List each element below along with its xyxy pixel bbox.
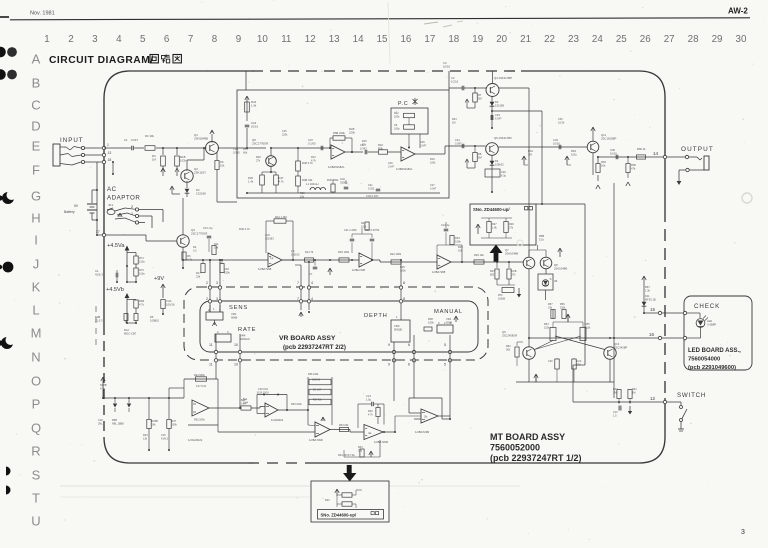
svg-text:SNo. ZD44600-up/: SNo. ZD44600-up/ bbox=[473, 207, 510, 212]
svg-text:1.3k: 1.3k bbox=[645, 288, 651, 292]
svg-text:E: E bbox=[32, 139, 41, 154]
svg-text:(pcb 22937247RT 1/2): (pcb 22937247RT 1/2) bbox=[490, 453, 582, 463]
svg-text:R40 2.7k: R40 2.7k bbox=[239, 227, 250, 231]
svg-text:100k: 100k bbox=[428, 320, 434, 324]
svg-text:11: 11 bbox=[209, 363, 213, 367]
svg-text:6: 6 bbox=[408, 343, 410, 347]
svg-text:10/16: 10/16 bbox=[558, 121, 565, 124]
svg-text:C1: C1 bbox=[124, 138, 128, 142]
svg-text:SENS: SENS bbox=[229, 305, 248, 311]
svg-text:R26 10k: R26 10k bbox=[474, 253, 484, 257]
svg-text:LED: LED bbox=[707, 319, 712, 323]
svg-text:1S2188: 1S2188 bbox=[196, 191, 206, 195]
svg-text:5V: 5V bbox=[74, 204, 79, 208]
svg-text:17: 17 bbox=[96, 230, 100, 234]
svg-text:U-0B8P: U-0B8P bbox=[707, 322, 716, 326]
svg-text:R33 23k: R33 23k bbox=[339, 424, 349, 427]
svg-text:C2: C2 bbox=[451, 76, 455, 80]
svg-text:1.5: 1.5 bbox=[613, 414, 617, 417]
svg-text:1M: 1M bbox=[613, 391, 616, 394]
svg-text:(pcb 22937247RT 2/2): (pcb 22937247RT 2/2) bbox=[283, 344, 346, 351]
svg-text:2SC2458GR: 2SC2458GR bbox=[502, 333, 517, 337]
svg-text:R64: R64 bbox=[571, 149, 576, 153]
svg-text:R47: R47 bbox=[279, 176, 284, 180]
svg-text:820: 820 bbox=[490, 273, 495, 276]
svg-text:R12 1.0M: R12 1.0M bbox=[275, 215, 287, 219]
svg-text:R11: R11 bbox=[214, 242, 219, 246]
svg-text:D4: D4 bbox=[495, 159, 499, 163]
svg-text:8: 8 bbox=[212, 34, 218, 45]
svg-text:Q6 2SK117BV: Q6 2SK117BV bbox=[494, 136, 512, 140]
svg-text:10/16: 10/16 bbox=[610, 151, 617, 155]
svg-text:C32: C32 bbox=[501, 170, 506, 174]
svg-text:16: 16 bbox=[649, 332, 655, 337]
svg-text:2SC342BP: 2SC342BP bbox=[614, 345, 628, 349]
svg-text:C31: C31 bbox=[455, 138, 460, 142]
svg-text:5: 5 bbox=[444, 343, 446, 347]
svg-text:R65: R65 bbox=[631, 163, 636, 167]
svg-text:MT BOARD ASSY: MT BOARD ASSY bbox=[490, 432, 565, 442]
svg-text:J: J bbox=[33, 257, 40, 272]
svg-text:Q4 2SK117BP: Q4 2SK117BP bbox=[494, 76, 512, 80]
svg-text:1/2IA9022: 1/2IA9022 bbox=[271, 418, 284, 422]
svg-text:R3k: R3k bbox=[378, 146, 383, 150]
svg-text:2: 2 bbox=[206, 297, 208, 301]
svg-text:C11 2.2/50: C11 2.2/50 bbox=[344, 228, 357, 232]
svg-text:R63: R63 bbox=[601, 160, 606, 164]
svg-text:10/16: 10/16 bbox=[251, 124, 258, 128]
svg-text:7560054000: 7560054000 bbox=[688, 357, 720, 363]
svg-text:100k: 100k bbox=[455, 239, 461, 243]
svg-text:6: 6 bbox=[408, 363, 410, 367]
svg-text:2SC1770GR: 2SC1770GR bbox=[252, 141, 268, 145]
svg-text:C13: C13 bbox=[366, 394, 371, 398]
svg-text:D12: D12 bbox=[124, 328, 129, 332]
svg-text:C17 0.01: C17 0.01 bbox=[196, 385, 207, 388]
svg-text:8: 8 bbox=[403, 297, 405, 301]
svg-text:10: 10 bbox=[234, 363, 238, 367]
svg-text:R61: R61 bbox=[528, 149, 533, 153]
svg-text:6.3μ: 6.3μ bbox=[501, 173, 507, 177]
svg-text:100193: 100193 bbox=[265, 236, 274, 240]
svg-text:2SK118Y: 2SK118Y bbox=[194, 170, 206, 174]
svg-text:INPUT: INPUT bbox=[60, 137, 84, 144]
svg-text:1M: 1M bbox=[452, 121, 455, 124]
svg-text:101k: 101k bbox=[571, 152, 577, 156]
svg-text:50kB: 50kB bbox=[231, 315, 238, 319]
svg-text:MDC-CB7: MDC-CB7 bbox=[124, 331, 137, 335]
svg-text:2MΩAC: 2MΩAC bbox=[240, 337, 250, 341]
svg-text:15: 15 bbox=[650, 307, 656, 312]
svg-text:150k: 150k bbox=[224, 270, 230, 274]
svg-text:24: 24 bbox=[592, 34, 603, 45]
svg-text:D11: D11 bbox=[645, 294, 650, 298]
svg-text:D8 1N4: D8 1N4 bbox=[313, 390, 322, 392]
svg-text:11: 11 bbox=[209, 343, 213, 347]
svg-text:CHECK: CHECK bbox=[694, 303, 720, 310]
svg-text:R20 100k: R20 100k bbox=[338, 250, 350, 254]
svg-text:4.7k: 4.7k bbox=[279, 179, 285, 183]
svg-text:RH5: RH5 bbox=[349, 127, 355, 131]
svg-text:1S2188: 1S2188 bbox=[495, 103, 505, 107]
svg-text:C33: C33 bbox=[495, 113, 500, 117]
svg-text:L1 100mH: L1 100mH bbox=[306, 182, 318, 186]
svg-text:1.4k: 1.4k bbox=[248, 179, 254, 183]
svg-text:0.1/50: 0.1/50 bbox=[308, 141, 316, 145]
svg-text:22k: 22k bbox=[196, 274, 201, 278]
svg-text:14: 14 bbox=[653, 151, 659, 156]
svg-text:C26: C26 bbox=[548, 360, 553, 363]
svg-text:10k: 10k bbox=[601, 163, 606, 167]
svg-text:8: 8 bbox=[403, 281, 405, 285]
svg-text:O: O bbox=[31, 374, 41, 389]
svg-text:17: 17 bbox=[424, 34, 435, 45]
svg-text:CIRCUIT DIAGRAM/: CIRCUIT DIAGRAM/ bbox=[49, 55, 154, 66]
svg-text:P.C: P.C bbox=[398, 101, 408, 107]
svg-text:19: 19 bbox=[472, 34, 483, 45]
svg-text:R34 96k: R34 96k bbox=[313, 400, 322, 402]
svg-text:C12 1μ: C12 1μ bbox=[441, 223, 450, 227]
svg-text:R6: R6 bbox=[187, 254, 191, 258]
svg-text:R25: R25 bbox=[458, 245, 463, 249]
svg-text:Ra3 180k: Ra3 180k bbox=[194, 374, 205, 377]
svg-text:10: 10 bbox=[257, 34, 268, 45]
svg-text:155k33: 155k33 bbox=[495, 162, 504, 166]
svg-text:4: 4 bbox=[311, 281, 313, 285]
svg-text:I: I bbox=[34, 233, 38, 248]
svg-text:4.7k: 4.7k bbox=[100, 386, 106, 390]
svg-text:1: 1 bbox=[131, 212, 133, 216]
svg-text:0.022: 0.022 bbox=[368, 187, 375, 190]
svg-text:6.34?: 6.34? bbox=[495, 116, 502, 120]
svg-text:47k: 47k bbox=[631, 166, 636, 170]
svg-text:2: 2 bbox=[206, 281, 208, 285]
svg-text:4.7k: 4.7k bbox=[368, 413, 373, 416]
svg-text:1: 1 bbox=[44, 34, 49, 45]
svg-text:9: 9 bbox=[236, 34, 241, 45]
svg-text:R4B 33k: R4B 33k bbox=[302, 178, 313, 182]
svg-text:+9V: +9V bbox=[154, 276, 164, 282]
svg-text:1.0μ: 1.0μ bbox=[366, 397, 372, 401]
svg-text:Q8: Q8 bbox=[554, 263, 558, 267]
svg-text:1M: 1M bbox=[152, 157, 157, 161]
svg-text:10k: 10k bbox=[458, 248, 463, 252]
svg-text:R16: R16 bbox=[378, 143, 383, 147]
svg-text:60k: 60k bbox=[243, 150, 248, 154]
svg-text:R58: R58 bbox=[428, 317, 433, 321]
svg-text:100k: 100k bbox=[172, 423, 178, 426]
svg-text:C23 0.047: C23 0.047 bbox=[366, 194, 379, 198]
svg-text:2SC1770GR: 2SC1770GR bbox=[191, 231, 207, 235]
svg-text:10k: 10k bbox=[220, 163, 225, 167]
svg-text:6: 6 bbox=[164, 34, 170, 45]
svg-text:30: 30 bbox=[736, 34, 747, 45]
svg-text:9: 9 bbox=[388, 343, 390, 347]
svg-text:R17: R17 bbox=[196, 271, 201, 275]
svg-text:18: 18 bbox=[448, 34, 459, 45]
svg-text:1/2BA5218AL: 1/2BA5218AL bbox=[396, 167, 413, 171]
svg-text:4a: 4a bbox=[368, 431, 372, 435]
svg-text:41/6.3: 41/6.3 bbox=[95, 272, 103, 276]
svg-text:16: 16 bbox=[400, 34, 411, 45]
svg-text:B: B bbox=[32, 76, 41, 91]
svg-text:LED BOARD ASS.,: LED BOARD ASS., bbox=[688, 348, 741, 354]
svg-text:23: 23 bbox=[568, 34, 579, 45]
svg-text:26: 26 bbox=[640, 34, 651, 45]
svg-text:3300p: 3300p bbox=[340, 180, 348, 184]
svg-text:D4: D4 bbox=[193, 245, 197, 249]
svg-text:115k: 115k bbox=[544, 326, 550, 329]
svg-text:0.84: 0.84 bbox=[243, 401, 248, 404]
svg-text:13: 13 bbox=[108, 151, 112, 155]
svg-text:100p: 100p bbox=[394, 127, 400, 130]
svg-text:R66 1k: R66 1k bbox=[637, 147, 646, 151]
svg-text:14: 14 bbox=[353, 34, 364, 45]
svg-text:4: 4 bbox=[311, 297, 313, 301]
svg-text:C27: C27 bbox=[308, 138, 313, 142]
svg-text:U: U bbox=[31, 514, 40, 529]
svg-text:R22 100k: R22 100k bbox=[390, 252, 402, 256]
svg-text:A: A bbox=[32, 52, 41, 67]
svg-text:R23: R23 bbox=[455, 236, 460, 240]
svg-text:R72: R72 bbox=[139, 268, 144, 272]
svg-text:R31 20=47.3A: R31 20=47.3A bbox=[338, 453, 355, 457]
svg-text:VR BOARD ASSY: VR BOARD ASSY bbox=[279, 335, 336, 342]
svg-text:220k: 220k bbox=[394, 115, 400, 118]
svg-text:3: 3 bbox=[741, 529, 745, 536]
svg-text:5: 5 bbox=[140, 34, 146, 45]
svg-text:2SC1815BP: 2SC1815BP bbox=[601, 136, 617, 140]
svg-text:25: 25 bbox=[616, 34, 627, 45]
svg-text:2SN1848B: 2SN1848B bbox=[194, 136, 208, 140]
svg-text:115k: 115k bbox=[585, 326, 591, 329]
svg-text:12: 12 bbox=[650, 396, 656, 401]
svg-text:36: 36 bbox=[554, 279, 558, 283]
svg-text:150k: 150k bbox=[560, 306, 566, 309]
svg-text:H: H bbox=[31, 211, 40, 226]
svg-text:AW-2: AW-2 bbox=[728, 7, 748, 16]
svg-text:1/2BA729R: 1/2BA729R bbox=[309, 438, 323, 442]
svg-text:103k: 103k bbox=[361, 225, 367, 228]
svg-text:28: 28 bbox=[688, 34, 699, 45]
svg-text:3: 3 bbox=[92, 34, 98, 45]
svg-text:R3 10k: R3 10k bbox=[145, 134, 154, 138]
svg-text:(pcb 2291049600): (pcb 2291049600) bbox=[688, 365, 736, 371]
svg-text:1: 1 bbox=[107, 143, 109, 147]
svg-text:C2B: C2B bbox=[95, 315, 100, 319]
svg-text:G: G bbox=[31, 189, 41, 204]
svg-text:SNo. ZD44600-up/: SNo. ZD44600-up/ bbox=[321, 513, 357, 518]
svg-text:5MΩB: 5MΩB bbox=[394, 327, 402, 331]
svg-text:4.7k: 4.7k bbox=[311, 159, 316, 162]
svg-text:29: 29 bbox=[712, 34, 723, 45]
svg-text:C7: C7 bbox=[309, 272, 313, 276]
svg-text:R30B: R30B bbox=[100, 383, 107, 387]
svg-text:RATE: RATE bbox=[238, 327, 256, 333]
svg-text:MFZ5.1B: MFZ5.1B bbox=[645, 297, 656, 301]
svg-text:Q: Q bbox=[31, 421, 41, 436]
svg-text:P: P bbox=[32, 397, 41, 412]
svg-text:+4.5Vb: +4.5Vb bbox=[106, 287, 124, 293]
svg-text:Q9: Q9 bbox=[502, 330, 506, 334]
svg-text:2SA1048M: 2SA1048M bbox=[505, 251, 519, 255]
svg-text:R5B 220k: R5B 220k bbox=[333, 131, 345, 135]
svg-text:ADAPTOR: ADAPTOR bbox=[107, 195, 140, 202]
svg-text:R1B: R1B bbox=[139, 299, 144, 303]
svg-text:10/16 10/16: 10/16 10/16 bbox=[257, 392, 270, 394]
svg-text:C3B: C3B bbox=[233, 147, 238, 151]
svg-text:5: 5 bbox=[444, 363, 446, 367]
svg-text:R: R bbox=[31, 444, 40, 459]
svg-text:R45: R45 bbox=[248, 176, 253, 180]
svg-text:12: 12 bbox=[305, 34, 316, 45]
svg-text:S: S bbox=[32, 468, 41, 483]
svg-text:1/2BA7298: 1/2BA7298 bbox=[258, 267, 272, 271]
svg-text:220k: 220k bbox=[282, 133, 288, 136]
svg-text:C: C bbox=[31, 98, 40, 113]
svg-text:1/2BA729M: 1/2BA729M bbox=[374, 440, 389, 444]
svg-text:C22: C22 bbox=[340, 177, 345, 181]
svg-text:DEPTH: DEPTH bbox=[364, 313, 388, 319]
svg-text:JK1: JK1 bbox=[108, 203, 114, 207]
svg-text:S: S bbox=[550, 277, 552, 281]
svg-text:R8: R8 bbox=[478, 152, 482, 156]
svg-text:F: F bbox=[32, 163, 40, 178]
svg-text:+4.5Va: +4.5Va bbox=[107, 243, 125, 249]
svg-text:5M: 5M bbox=[478, 155, 482, 159]
svg-text:15: 15 bbox=[377, 34, 388, 45]
svg-text:0.047: 0.047 bbox=[388, 165, 395, 168]
svg-text:D6: D6 bbox=[220, 160, 224, 164]
svg-text:1.8k: 1.8k bbox=[492, 226, 497, 229]
svg-text:7: 7 bbox=[297, 281, 299, 285]
svg-text:3: 3 bbox=[216, 281, 218, 285]
svg-text:R71: R71 bbox=[139, 256, 144, 260]
svg-text:10/16: 10/16 bbox=[553, 141, 560, 145]
svg-text:OUTPUT: OUTPUT bbox=[681, 146, 714, 153]
svg-text:22: 22 bbox=[544, 34, 555, 45]
svg-text:Q7: Q7 bbox=[505, 248, 509, 252]
svg-text:21: 21 bbox=[520, 34, 531, 45]
svg-text:2: 2 bbox=[131, 205, 133, 209]
svg-text:C34: C34 bbox=[553, 138, 558, 142]
svg-text:3: 3 bbox=[216, 297, 218, 301]
svg-text:SWITCH: SWITCH bbox=[677, 392, 706, 399]
svg-text:R14 7k: R14 7k bbox=[305, 250, 314, 254]
svg-text:2SA1048M: 2SA1048M bbox=[554, 266, 568, 270]
svg-text:K: K bbox=[32, 280, 41, 295]
svg-text:7: 7 bbox=[188, 34, 193, 45]
svg-text:1C/16: 1C/16 bbox=[451, 79, 459, 83]
svg-text:0.39?: 0.39? bbox=[455, 141, 462, 145]
svg-text:1N4148: 1N4148 bbox=[312, 380, 321, 382]
svg-text:0.39S: 0.39S bbox=[233, 150, 240, 154]
svg-text:10k: 10k bbox=[214, 245, 219, 249]
svg-text:R20: R20 bbox=[325, 499, 330, 502]
svg-text:7560052000: 7560052000 bbox=[490, 443, 540, 453]
svg-text:1/2BA729R: 1/2BA729R bbox=[415, 430, 429, 434]
svg-text:4.7k: 4.7k bbox=[187, 257, 193, 261]
svg-text:R5B: R5B bbox=[539, 234, 544, 238]
svg-text:220k: 220k bbox=[349, 130, 355, 134]
svg-text:110a: 110a bbox=[139, 259, 145, 263]
svg-text:C35: C35 bbox=[610, 148, 615, 152]
svg-text:2: 2 bbox=[68, 34, 73, 45]
svg-text:Battery: Battery bbox=[64, 210, 75, 214]
svg-text:1/2BA7298: 1/2BA7298 bbox=[432, 270, 446, 274]
svg-text:5M: 5M bbox=[478, 96, 482, 100]
svg-text:1M: 1M bbox=[632, 391, 635, 394]
svg-text:9: 9 bbox=[388, 363, 390, 367]
svg-text:13: 13 bbox=[329, 34, 340, 45]
svg-text:0.347: 0.347 bbox=[360, 146, 367, 150]
svg-text:C15 C18: C15 C18 bbox=[258, 388, 268, 391]
svg-text:41/6.3: 41/6.3 bbox=[161, 437, 169, 440]
svg-text:2NL.9: 2NL.9 bbox=[98, 422, 105, 425]
svg-text:102k: 102k bbox=[180, 158, 187, 162]
svg-text:0.047: 0.047 bbox=[420, 144, 427, 147]
svg-text:1.5k: 1.5k bbox=[251, 103, 257, 107]
svg-text:NBL.1BB8: NBL.1BB8 bbox=[112, 422, 124, 425]
svg-text:N: N bbox=[31, 350, 40, 365]
svg-text:21.5.3: 21.5.3 bbox=[95, 318, 103, 322]
svg-text:1/2BA5218AL: 1/2BA5218AL bbox=[328, 165, 345, 169]
svg-text:0.047: 0.047 bbox=[430, 187, 437, 190]
svg-text:20: 20 bbox=[496, 34, 507, 45]
svg-text:100kB: 100kB bbox=[498, 297, 505, 300]
svg-text:1a: 1a bbox=[270, 256, 274, 260]
svg-text:0.2: 0.2 bbox=[193, 248, 197, 252]
svg-text:D3: D3 bbox=[495, 100, 499, 104]
svg-text:100193: 100193 bbox=[291, 253, 300, 256]
svg-text:110a: 110a bbox=[139, 271, 145, 275]
svg-text:Nov. 1981: Nov. 1981 bbox=[30, 11, 55, 17]
svg-text:L: L bbox=[32, 303, 39, 318]
svg-text:D: D bbox=[31, 119, 40, 134]
svg-text:10: 10 bbox=[234, 343, 238, 347]
svg-text:0.047: 0.047 bbox=[131, 138, 138, 142]
svg-text:1/2Bu7298: 1/2Bu7298 bbox=[352, 268, 366, 272]
svg-text:2b: 2b bbox=[424, 415, 428, 419]
svg-text:M: M bbox=[31, 326, 42, 341]
svg-text:C6 1.0μ: C6 1.0μ bbox=[203, 226, 213, 230]
svg-text:AC: AC bbox=[107, 186, 117, 193]
svg-text:1/2I1A9022: 1/2I1A9022 bbox=[188, 438, 203, 442]
svg-text:5.1k: 5.1k bbox=[539, 237, 545, 241]
svg-text:18: 18 bbox=[108, 158, 112, 162]
svg-text:7: 7 bbox=[297, 297, 299, 301]
svg-text:100/16: 100/16 bbox=[166, 302, 175, 306]
svg-text:R67: R67 bbox=[645, 285, 650, 289]
svg-text:100k: 100k bbox=[430, 161, 436, 164]
svg-text:MANUAL: MANUAL bbox=[434, 309, 463, 315]
svg-text:27: 27 bbox=[664, 34, 675, 45]
svg-text:11: 11 bbox=[281, 34, 291, 45]
svg-text:R35 100k: R35 100k bbox=[291, 403, 302, 406]
svg-text:T: T bbox=[32, 491, 40, 506]
svg-text:R35 200k: R35 200k bbox=[194, 419, 205, 422]
svg-text:Q13: Q13 bbox=[614, 342, 620, 346]
svg-text:4: 4 bbox=[116, 34, 122, 45]
svg-text:10/16: 10/16 bbox=[443, 64, 450, 68]
svg-text:R18: R18 bbox=[224, 267, 229, 271]
svg-text:R36 100k: R36 100k bbox=[308, 373, 319, 376]
svg-text:4.7k: 4.7k bbox=[139, 302, 145, 306]
svg-text:R7: R7 bbox=[478, 93, 482, 97]
svg-text:100B10: 100B10 bbox=[150, 318, 160, 322]
svg-text:D5: D5 bbox=[150, 315, 154, 319]
